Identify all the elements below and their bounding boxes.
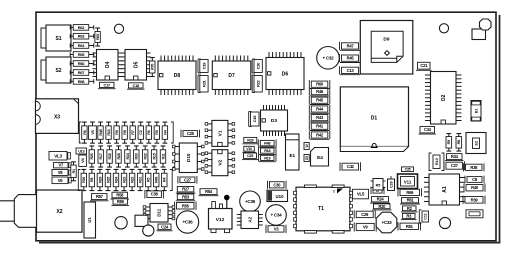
svg-text:C17: C17 [104,82,112,87]
svg-text:D4: D4 [105,61,111,68]
capacitor C24 label [157,224,173,231]
svg-text:C34: C34 [424,127,432,132]
connector X3 [36,99,79,134]
svg-text:C29: C29 [361,212,369,217]
board outline [36,12,496,241]
svg-text:D11: D11 [157,208,162,216]
transformer T1 [294,185,353,233]
svg-text:R28: R28 [117,153,121,159]
resonator B1 [471,101,481,122]
svg-text:+ C32: + C32 [323,55,335,60]
capacitor C33 [376,212,397,233]
resistor R3 label [401,213,417,219]
svg-text:VL5: VL5 [357,192,365,197]
resistor R53 label [176,194,196,201]
svg-text:R53: R53 [182,194,190,199]
svg-text:V5: V5 [91,130,95,134]
capacitor C20 label [252,59,262,73]
svg-text:R19: R19 [264,156,270,160]
capacitor C8 label [465,176,484,184]
svg-text:R7: R7 [131,130,135,134]
connector X2 body [37,190,83,232]
svg-text:R41: R41 [316,124,324,129]
svg-text:R29: R29 [247,138,253,142]
resistor R41 label [309,122,330,130]
svg-text:C24: C24 [161,224,169,229]
mounting hole top-left [114,24,123,33]
IC D6 [266,52,304,95]
svg-text:R51: R51 [406,224,414,229]
svg-text:U10: U10 [275,194,284,199]
capacitor C35 [240,191,261,212]
resistor R68 [70,79,94,85]
resistor R31 row3-7 [137,169,142,190]
resistor R25 row3-3 [105,169,110,190]
IC U13 label [76,148,87,154]
svg-text:R68: R68 [78,79,86,84]
svg-text:R34: R34 [451,154,459,159]
resistor R45 label [309,96,330,104]
svg-text:VL3: VL3 [54,153,62,158]
IC D10 [173,143,205,173]
svg-text:V10: V10 [246,147,252,151]
svg-text:E1: E1 [289,153,295,158]
resistor R48 label [258,139,276,147]
resistor R26 row2-0 [89,146,94,167]
svg-text:R59: R59 [117,199,125,204]
diode V6 label [52,177,68,184]
svg-text:R66: R66 [406,190,414,195]
resistor R62 [70,25,94,31]
svg-text:R70: R70 [151,64,155,70]
resistor R60 label [309,80,330,88]
resistor row 1 bracket [79,122,81,143]
svg-text:R5: R5 [376,183,381,187]
resistor R11 row2-8 [160,146,165,167]
svg-text:R17: R17 [99,153,103,159]
capacitor C25 label [181,130,200,138]
svg-text:R43: R43 [316,115,324,120]
resistor R38 label [464,163,485,171]
svg-text:R61: R61 [407,198,415,203]
svg-text:R65: R65 [78,52,86,57]
svg-text:D5: D5 [134,61,140,68]
svg-text:V1: V1 [218,130,224,136]
svg-text:R45: R45 [316,98,324,103]
svg-text:R48: R48 [264,141,270,145]
svg-text:R6: R6 [147,130,151,134]
IC D2 [425,72,462,125]
IC D7 [212,56,251,96]
svg-text:D7: D7 [228,73,235,79]
fiducial square top-right [472,29,486,40]
relay S2 bracket [41,60,46,80]
svg-text:C13: C13 [347,68,355,73]
trimmer R55 [371,179,386,191]
capacitor C26 label [466,210,483,218]
svg-text:R29: R29 [98,177,102,183]
svg-text:C30: C30 [273,182,281,187]
IC A2 [237,211,263,229]
resistor R2 label [401,206,418,212]
resistor R4 row1-10 [162,122,167,143]
svg-text:R49: R49 [155,177,159,183]
resistor R10 vertical [429,153,444,171]
diode V8 tick box [69,170,71,175]
resistor R65 [70,52,94,58]
svg-text:C20: C20 [256,62,261,70]
svg-text:C2: C2 [139,130,143,134]
resistor R59 label [112,199,130,206]
svg-text:R35: R35 [108,153,112,159]
capacitor C35b label [402,167,414,172]
diode VL3 tick box [68,153,71,160]
svg-text:S2: S2 [55,68,61,74]
svg-text:R48: R48 [99,129,103,135]
svg-text:R60: R60 [316,82,324,87]
svg-text:R1: R1 [72,169,76,173]
diode V7 label [54,163,69,168]
svg-text:R6: R6 [83,130,87,134]
svg-text:X3: X3 [54,115,60,121]
board shadow lines [39,15,500,243]
svg-text:R39: R39 [471,197,479,202]
resistor R22 row3-6 [129,169,134,190]
svg-text:U1: U1 [87,217,92,223]
relay S2 [46,57,71,83]
mounting hole top-right [439,24,448,33]
svg-text:R5: R5 [147,178,151,182]
svg-text:+C36: +C36 [183,220,194,225]
svg-text:D9: D9 [383,37,389,43]
svg-text:C27: C27 [451,163,459,168]
resistor R64 [70,43,94,49]
svg-text:S1: S1 [55,36,61,42]
IC D3 [261,105,288,136]
svg-text:R42: R42 [316,133,324,138]
resistor R18 label [259,147,277,154]
svg-text:R8: R8 [90,178,94,182]
resistor R70 [150,58,155,77]
fiducial square bottom [135,215,148,226]
svg-text:V12: V12 [216,217,225,223]
resistor R61 label [400,198,420,204]
resistor R58 label [111,192,130,199]
svg-text:R26: R26 [90,153,94,159]
svg-text:V11: V11 [404,180,412,185]
capacitor C34 label [419,127,437,135]
svg-text:C35: C35 [405,167,411,171]
resistor R16 row1-3 [106,122,111,143]
svg-text:R9: R9 [115,130,119,134]
capacitor C13 label [340,66,361,75]
svg-text:D8: D8 [174,73,181,79]
diode V6 tick box [69,178,71,183]
svg-text:R8: R8 [123,130,127,134]
resistor R51 label [398,222,421,230]
svg-text:R36: R36 [82,177,86,183]
svg-text:A2: A2 [247,216,252,222]
capacitor C34b [266,205,287,226]
diode V10 label [242,146,256,152]
resistor R44 label [309,105,330,113]
svg-text:C27: C27 [184,177,192,182]
resistor R6 row1-8 [146,122,151,143]
resistor R24 row3-4 [113,169,118,190]
svg-text:E2: E2 [474,141,478,146]
resistor R21 label [198,75,208,93]
resistor R46 label [309,88,330,96]
svg-text:D10: D10 [186,153,191,162]
relay S1 bracket [41,28,46,48]
svg-text:D1: D1 [371,116,378,122]
svg-text:C15: C15 [252,115,257,123]
resistor R57 label [90,194,109,201]
svg-text:C42: C42 [347,164,355,169]
IC D1 [340,87,408,152]
capacitor C28 vertical [388,176,395,191]
resistor R39 label [463,196,485,205]
IC V2 [205,150,235,176]
resistor R34 row2-4 [125,146,130,167]
resistor R43 label [309,114,330,122]
resistor R32 row2-6 [143,146,148,167]
capacitor C21 label [416,62,432,70]
svg-text:+C33: +C33 [382,220,393,225]
diode V3 label [266,225,286,233]
svg-text:D2: D2 [441,94,447,101]
capacitor C29 label [354,210,375,218]
resistor R17 row2-1 [98,146,103,167]
svg-text:R16: R16 [107,129,111,135]
svg-text:R9: R9 [447,140,451,144]
capacitor C38 label [145,190,164,199]
svg-text:+C35: +C35 [245,199,256,204]
svg-text:R8: R8 [457,140,461,144]
svg-text:R57: R57 [96,194,104,199]
svg-text:R15: R15 [152,153,156,159]
diode VL3 label [49,152,67,161]
svg-text:R22: R22 [130,177,134,183]
resistor R36 row3-0 [81,169,86,190]
resistor R1 [71,162,76,181]
resistor R5 row3-8 [146,169,151,190]
svg-text:T1: T1 [318,206,324,212]
resistor R20 label [372,204,392,210]
resistor R8 row3-1 [89,169,94,190]
capacitor C42 label [340,162,361,171]
svg-text:R5: R5 [155,130,159,134]
resistor R49 row3-9 [154,169,159,190]
diode D12 label [371,187,384,194]
jumper E4 [311,148,329,167]
svg-text:C25: C25 [247,154,253,158]
diode V8 label [52,170,68,176]
connector X2 plug [0,195,36,228]
svg-text:R11: R11 [161,153,165,159]
resistor R42 label [309,131,330,139]
mounting hole bottom-right [439,217,450,228]
optocoupler D5 [121,50,151,81]
svg-text:R45: R45 [347,56,355,61]
diode VL5 label [353,189,369,199]
resistor R28 row2-3 [116,146,121,167]
resistor R48 row1-2 [98,122,103,143]
svg-text:C18: C18 [133,83,141,88]
svg-text:C11: C11 [424,213,428,219]
resistor row 3 bracket [78,170,80,191]
fiducial circle bottom [143,225,154,236]
IC U10 [267,190,288,201]
resistor R8 row1-5 [122,122,127,143]
svg-text:C28: C28 [389,181,393,188]
svg-text:R33: R33 [135,153,139,159]
regulator V12 [209,195,233,233]
jumper E3 label [304,155,309,162]
svg-text:R21: R21 [201,79,206,87]
resistor R23 row3-5 [121,169,126,190]
svg-text:B1: B1 [475,108,479,113]
capacitor C25b label [242,153,258,160]
optocoupler D4 [93,50,123,81]
svg-text:R56: R56 [182,203,190,208]
capacitor C27b label [444,161,465,170]
resistor R19 label [259,154,277,161]
svg-text:C19: C19 [201,62,206,70]
svg-text:D3: D3 [271,118,277,124]
resistor R35 row2-2 [107,146,112,167]
resistor R69 [95,28,100,46]
module D9 [360,21,413,75]
diode V9 label [354,222,376,231]
resistor R9b [446,134,452,152]
resistor row 1 end bracket [171,122,173,143]
IC V1 [205,120,235,146]
svg-text:C38: C38 [151,192,159,197]
resistor R15 row2-7 [151,146,156,167]
resistor R27 label [176,187,196,194]
capacitor C36 [176,211,198,233]
svg-text:R64: R64 [78,43,86,48]
capacitor C18 label [127,83,145,89]
svg-text:V2: V2 [218,159,224,165]
svg-text:R67: R67 [78,70,86,75]
resistor R29 label [242,137,258,143]
jumper E2 box [466,133,486,154]
resistor R24 label [370,197,390,204]
regulator V11 [398,174,418,189]
svg-text:R20: R20 [378,204,386,209]
resistor R4 row3-10 [162,169,167,190]
resistor R6 row1-0 [82,122,87,143]
svg-text:E3: E3 [305,156,309,160]
svg-text:A1: A1 [442,186,448,193]
IC A1 [424,174,465,205]
jumper E1 [286,134,300,170]
svg-text:R22: R22 [256,79,261,87]
svg-text:C21: C21 [420,63,428,68]
svg-text:R23: R23 [122,177,126,183]
resistor R22 label [252,75,262,93]
svg-text:X2: X2 [56,209,62,215]
resistor R29 row3-2 [97,169,102,190]
relay S1 [46,25,71,51]
IC D8 [158,56,196,96]
resistor R33 row2-5 [134,146,139,167]
mounting hole bottom-left [115,217,127,229]
resistor R63 [70,33,94,39]
svg-text:R66: R66 [78,61,86,66]
resistor R8b [456,134,462,152]
inner tick of C26 [469,212,480,216]
fiducial octagon top-right [480,19,492,30]
svg-text:+ C34: + C34 [271,213,283,218]
svg-text:R44: R44 [316,107,324,112]
svg-text:R46: R46 [316,89,324,94]
resistor R54 label [199,189,219,196]
svg-text:R47: R47 [347,43,355,48]
svg-text:E4: E4 [317,155,323,161]
resistor R66 label [398,188,422,196]
capacitor C17 label [98,82,116,88]
resistor C2 row1-7 [138,122,143,143]
resistor R5 row1-9 [154,122,159,143]
resistor R40 label [464,184,485,192]
svg-text:R27: R27 [182,187,190,192]
svg-text:R69: R69 [96,34,100,40]
resistor row 2 end bracket [173,146,175,167]
resistor R7 row1-6 [130,122,135,143]
capacitor C32 [317,47,340,70]
resistor R45 label [340,54,361,63]
resistor R9 row1-4 [114,122,119,143]
svg-text:R18: R18 [264,149,270,153]
svg-text:U13: U13 [78,149,84,153]
capacitor C30 label [268,181,287,189]
resistor V5 row1-1 [89,122,97,143]
capacitor C11 vertical [419,210,428,223]
diode V4 label [79,155,87,167]
svg-text:C25: C25 [187,131,195,136]
svg-text:R40: R40 [471,185,479,190]
capacitor C19 label [198,59,208,73]
resistor R34 label [445,154,464,161]
resistor R47 label [340,42,361,51]
svg-text:R38: R38 [470,165,478,170]
svg-text:R62: R62 [78,25,86,30]
svg-text:R25: R25 [106,177,110,183]
resistor R56 label [175,202,197,211]
svg-text:R32: R32 [144,153,148,159]
resistor R67 [70,70,94,76]
fuse U11 beside X2 [84,202,96,238]
svg-text:R63: R63 [78,34,86,39]
svg-text:R31: R31 [139,177,143,183]
svg-text:D6: D6 [282,71,289,77]
diode V7 tick box [69,163,71,168]
jumper W1 label [304,143,309,150]
resistor R66 [70,61,94,67]
svg-text:R58: R58 [116,193,124,198]
svg-text:R54: R54 [205,189,213,194]
capacitor C15 label [249,112,259,127]
svg-text:R24: R24 [377,197,385,202]
capacitor C27 label [178,176,197,184]
svg-text:R10: R10 [435,158,439,165]
resistor row 3 end bracket [170,170,172,191]
IC D11 [143,204,175,223]
